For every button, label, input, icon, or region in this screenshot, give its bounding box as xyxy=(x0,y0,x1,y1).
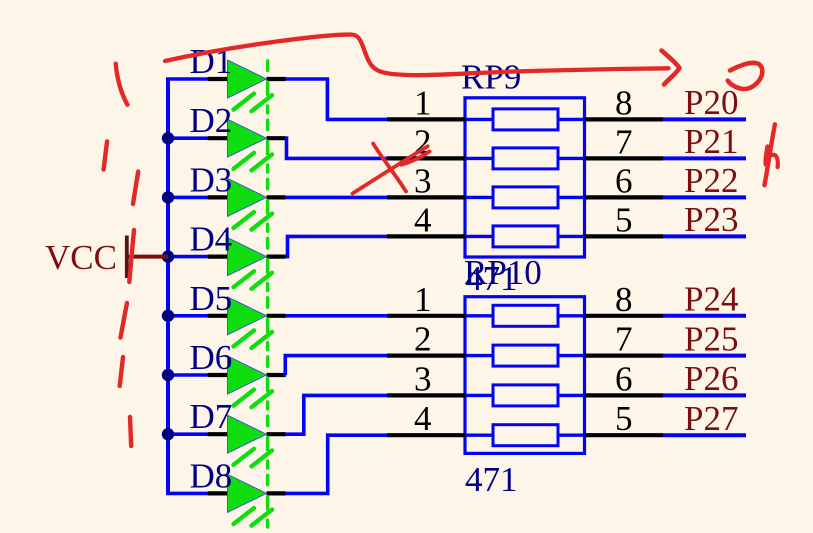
LED D7 triangle xyxy=(228,415,267,453)
LED D4 triangle xyxy=(228,238,267,276)
resistor RP9 r3 xyxy=(493,187,558,208)
wire net P22 xyxy=(663,195,746,199)
pin RP9.8 right xyxy=(584,117,664,121)
svg-text:P27: P27 xyxy=(684,399,738,438)
wire anode D3 xyxy=(166,196,209,200)
LED D6 triangle xyxy=(228,356,267,394)
pin cathode D3 xyxy=(267,195,286,199)
svg-text:VCC: VCC xyxy=(45,238,117,277)
pin RP9.2 left xyxy=(387,156,466,160)
node junction D5 xyxy=(162,310,174,322)
svg-text:8: 8 xyxy=(615,280,633,319)
svg-text:5: 5 xyxy=(615,399,633,438)
svg-text:4: 4 xyxy=(414,200,432,239)
pin anode D3 xyxy=(208,195,228,199)
wire net P25 xyxy=(663,354,746,358)
svg-text:6: 6 xyxy=(615,161,633,200)
annotation red arrowhead xyxy=(662,51,680,85)
pin RP10.2 left xyxy=(387,354,466,358)
wire anode D8 xyxy=(166,492,209,496)
LED D2 slashes xyxy=(234,153,273,171)
wire anode D5 xyxy=(166,314,209,318)
svg-text:P20: P20 xyxy=(684,83,738,122)
wire stub right inside RP10 r2 xyxy=(557,354,585,357)
resistor RP10 r3 xyxy=(493,385,558,406)
annotation red dash 7 xyxy=(130,417,131,446)
LED D8 slashes xyxy=(234,508,273,526)
LED D1 triangle xyxy=(228,60,267,98)
svg-text:D2: D2 xyxy=(190,101,233,140)
pin RP10.4 left xyxy=(387,433,466,437)
svg-text:P21: P21 xyxy=(684,122,738,161)
wire anode D1 xyxy=(166,77,209,81)
wire net P26 xyxy=(663,393,746,397)
annotation red dash 5 xyxy=(121,303,128,338)
pin RP10.7 right xyxy=(584,354,664,358)
annotation red X cross stroke A xyxy=(353,146,430,193)
pin cathode D2 xyxy=(267,136,286,140)
LED D3 slashes xyxy=(234,212,273,230)
svg-text:7: 7 xyxy=(615,320,633,359)
LED D3 triangle xyxy=(228,178,267,216)
wire cathode D8 to RP xyxy=(286,435,388,493)
svg-text:RP9: RP9 xyxy=(461,58,521,97)
node junction D2 xyxy=(162,132,174,144)
wire cathode D5 to RP xyxy=(286,314,388,318)
power port VCC wire xyxy=(128,255,168,259)
pin RP10.3 left xyxy=(387,393,466,397)
resistor RP9 r1 xyxy=(493,109,558,130)
resistor RP9 r2 xyxy=(493,148,558,169)
wire stub left inside RP9 r3 xyxy=(465,196,494,199)
svg-text:4: 4 xyxy=(414,399,432,438)
wire stub right inside RP10 r4 xyxy=(557,434,585,437)
pin RP9.7 right xyxy=(584,156,664,160)
resistor pack RP9 body xyxy=(465,98,585,257)
RP internal resistors inserted by script xyxy=(387,83,746,446)
wire anode D7 xyxy=(166,432,209,436)
wire net P21 xyxy=(663,156,746,160)
svg-text:6: 6 xyxy=(615,359,633,398)
resistor RP9 r4 xyxy=(493,226,558,247)
wire cathode D4 to RP xyxy=(286,236,388,256)
wire anode D2 xyxy=(166,136,209,140)
wire stub right inside RP9 r2 xyxy=(557,157,585,160)
wire cathode D3 to RP xyxy=(286,196,388,200)
wire anode D4 xyxy=(166,255,209,259)
svg-text:P26: P26 xyxy=(684,359,738,398)
annotation red dash 1 xyxy=(116,64,128,105)
svg-text:D3: D3 xyxy=(190,160,233,199)
svg-text:5: 5 xyxy=(615,200,633,239)
annotation red dash 3 xyxy=(133,172,138,204)
wire stub left inside RP9 r1 xyxy=(465,118,494,121)
LED D1 slashes xyxy=(234,94,273,112)
node junction D4 VCC xyxy=(162,250,174,262)
svg-text:471: 471 xyxy=(465,259,518,298)
svg-text:3: 3 xyxy=(414,359,432,398)
resistor RP10 r4 xyxy=(493,425,558,446)
pin cathode D7 xyxy=(267,432,286,436)
wire stub right inside RP9 r4 xyxy=(557,235,585,238)
svg-text:1: 1 xyxy=(414,83,432,122)
wire anode D6 xyxy=(166,373,209,377)
svg-text:2: 2 xyxy=(414,320,432,359)
pin RP10.1 left xyxy=(387,314,466,318)
pin RP9.6 right xyxy=(584,195,664,199)
LED D2 triangle xyxy=(228,119,267,157)
svg-text:3: 3 xyxy=(414,161,432,200)
node junction D3 xyxy=(162,191,174,203)
annotation red dash 4 xyxy=(129,230,134,282)
annotation red dash 6 xyxy=(120,357,123,386)
power port VCC bar xyxy=(125,236,129,279)
wire stub left inside RP10 r1 xyxy=(465,314,494,317)
pin RP9.1 left xyxy=(387,117,466,121)
LED D8 triangle xyxy=(228,474,267,512)
wire stub right inside RP9 r1 xyxy=(557,118,585,121)
pin cathode D1 xyxy=(267,77,286,81)
wire net P23 xyxy=(663,234,746,238)
wire cathode D7 to RP xyxy=(286,395,388,434)
annotation red dash 2 xyxy=(104,141,108,169)
svg-text:P22: P22 xyxy=(684,161,738,200)
svg-text:P25: P25 xyxy=(684,319,738,358)
wire VCC bus vertical xyxy=(166,79,170,493)
node junction D6 xyxy=(162,369,174,381)
svg-text:D5: D5 xyxy=(190,279,233,318)
pin anode D1 xyxy=(208,77,228,81)
svg-text:8: 8 xyxy=(615,83,633,122)
svg-text:D8: D8 xyxy=(190,456,233,495)
LED anode/cathode rows + green parts inserted by script below xyxy=(166,42,388,527)
svg-text:D6: D6 xyxy=(190,338,233,377)
resistor pack RP10 body xyxy=(465,297,585,454)
pin RP9.3 left xyxy=(387,195,466,199)
wire stub right inside RP10 r1 xyxy=(557,314,585,317)
wire net P20 xyxy=(663,117,746,121)
LED D6 slashes xyxy=(234,390,273,408)
svg-text:P23: P23 xyxy=(684,200,738,239)
LED D4 slashes xyxy=(234,271,273,289)
pin anode D7 xyxy=(208,432,228,436)
svg-text:P24: P24 xyxy=(684,280,738,319)
annotation red curve arrow body xyxy=(165,35,669,76)
annotation red lightning stroke A xyxy=(765,124,775,185)
wire stub left inside RP10 r3 xyxy=(465,394,494,397)
pin RP9.5 right xyxy=(584,234,664,238)
LED D5 triangle xyxy=(228,297,267,335)
pin anode D6 xyxy=(208,373,228,377)
pin cathode D4 xyxy=(267,255,286,259)
pin RP9.4 left xyxy=(387,234,466,238)
wire stub left inside RP10 r4 xyxy=(465,434,494,437)
wire cathode D6 to RP xyxy=(285,356,388,375)
pin anode D4 xyxy=(208,255,228,259)
svg-text:7: 7 xyxy=(615,122,633,161)
pin RP10.8 right xyxy=(584,314,664,318)
wire net P27 xyxy=(663,433,746,437)
wire stub left inside RP9 r4 xyxy=(465,235,494,238)
svg-text:1: 1 xyxy=(414,280,432,319)
wire stub right inside RP9 r3 xyxy=(557,196,585,199)
annotation red X cross stroke B xyxy=(373,144,406,192)
pin anode D2 xyxy=(208,136,228,140)
annotation red loop xyxy=(728,63,763,89)
wire stub right inside RP10 r3 xyxy=(557,394,585,397)
svg-text:D4: D4 xyxy=(190,220,233,259)
svg-text:471: 471 xyxy=(465,460,518,499)
wire cathode D2 to RP xyxy=(286,138,388,158)
wire stub left inside RP10 r2 xyxy=(465,354,494,357)
LED cathode bar dashed line xyxy=(266,61,269,527)
resistor RP10 r2 xyxy=(493,345,558,366)
pin RP10.5 right xyxy=(584,433,664,437)
annotation red lightning stroke B xyxy=(766,147,778,168)
pin anode D5 xyxy=(208,314,228,318)
svg-text:D7: D7 xyxy=(190,397,233,436)
pin cathode D8 xyxy=(267,491,286,495)
wire net P24 xyxy=(663,314,746,318)
LED D7 slashes xyxy=(234,449,273,467)
pin RP10.6 right xyxy=(584,393,664,397)
LED D5 slashes xyxy=(234,330,273,348)
pin anode D8 xyxy=(208,491,228,495)
wire cathode D1 to RP xyxy=(286,79,388,119)
wire stub left inside RP9 r2 xyxy=(465,157,494,160)
resistor RP10 r1 xyxy=(493,305,558,326)
pin cathode D6 xyxy=(267,373,286,377)
node junction D7 xyxy=(162,428,174,440)
pin cathode D5 xyxy=(267,314,286,318)
